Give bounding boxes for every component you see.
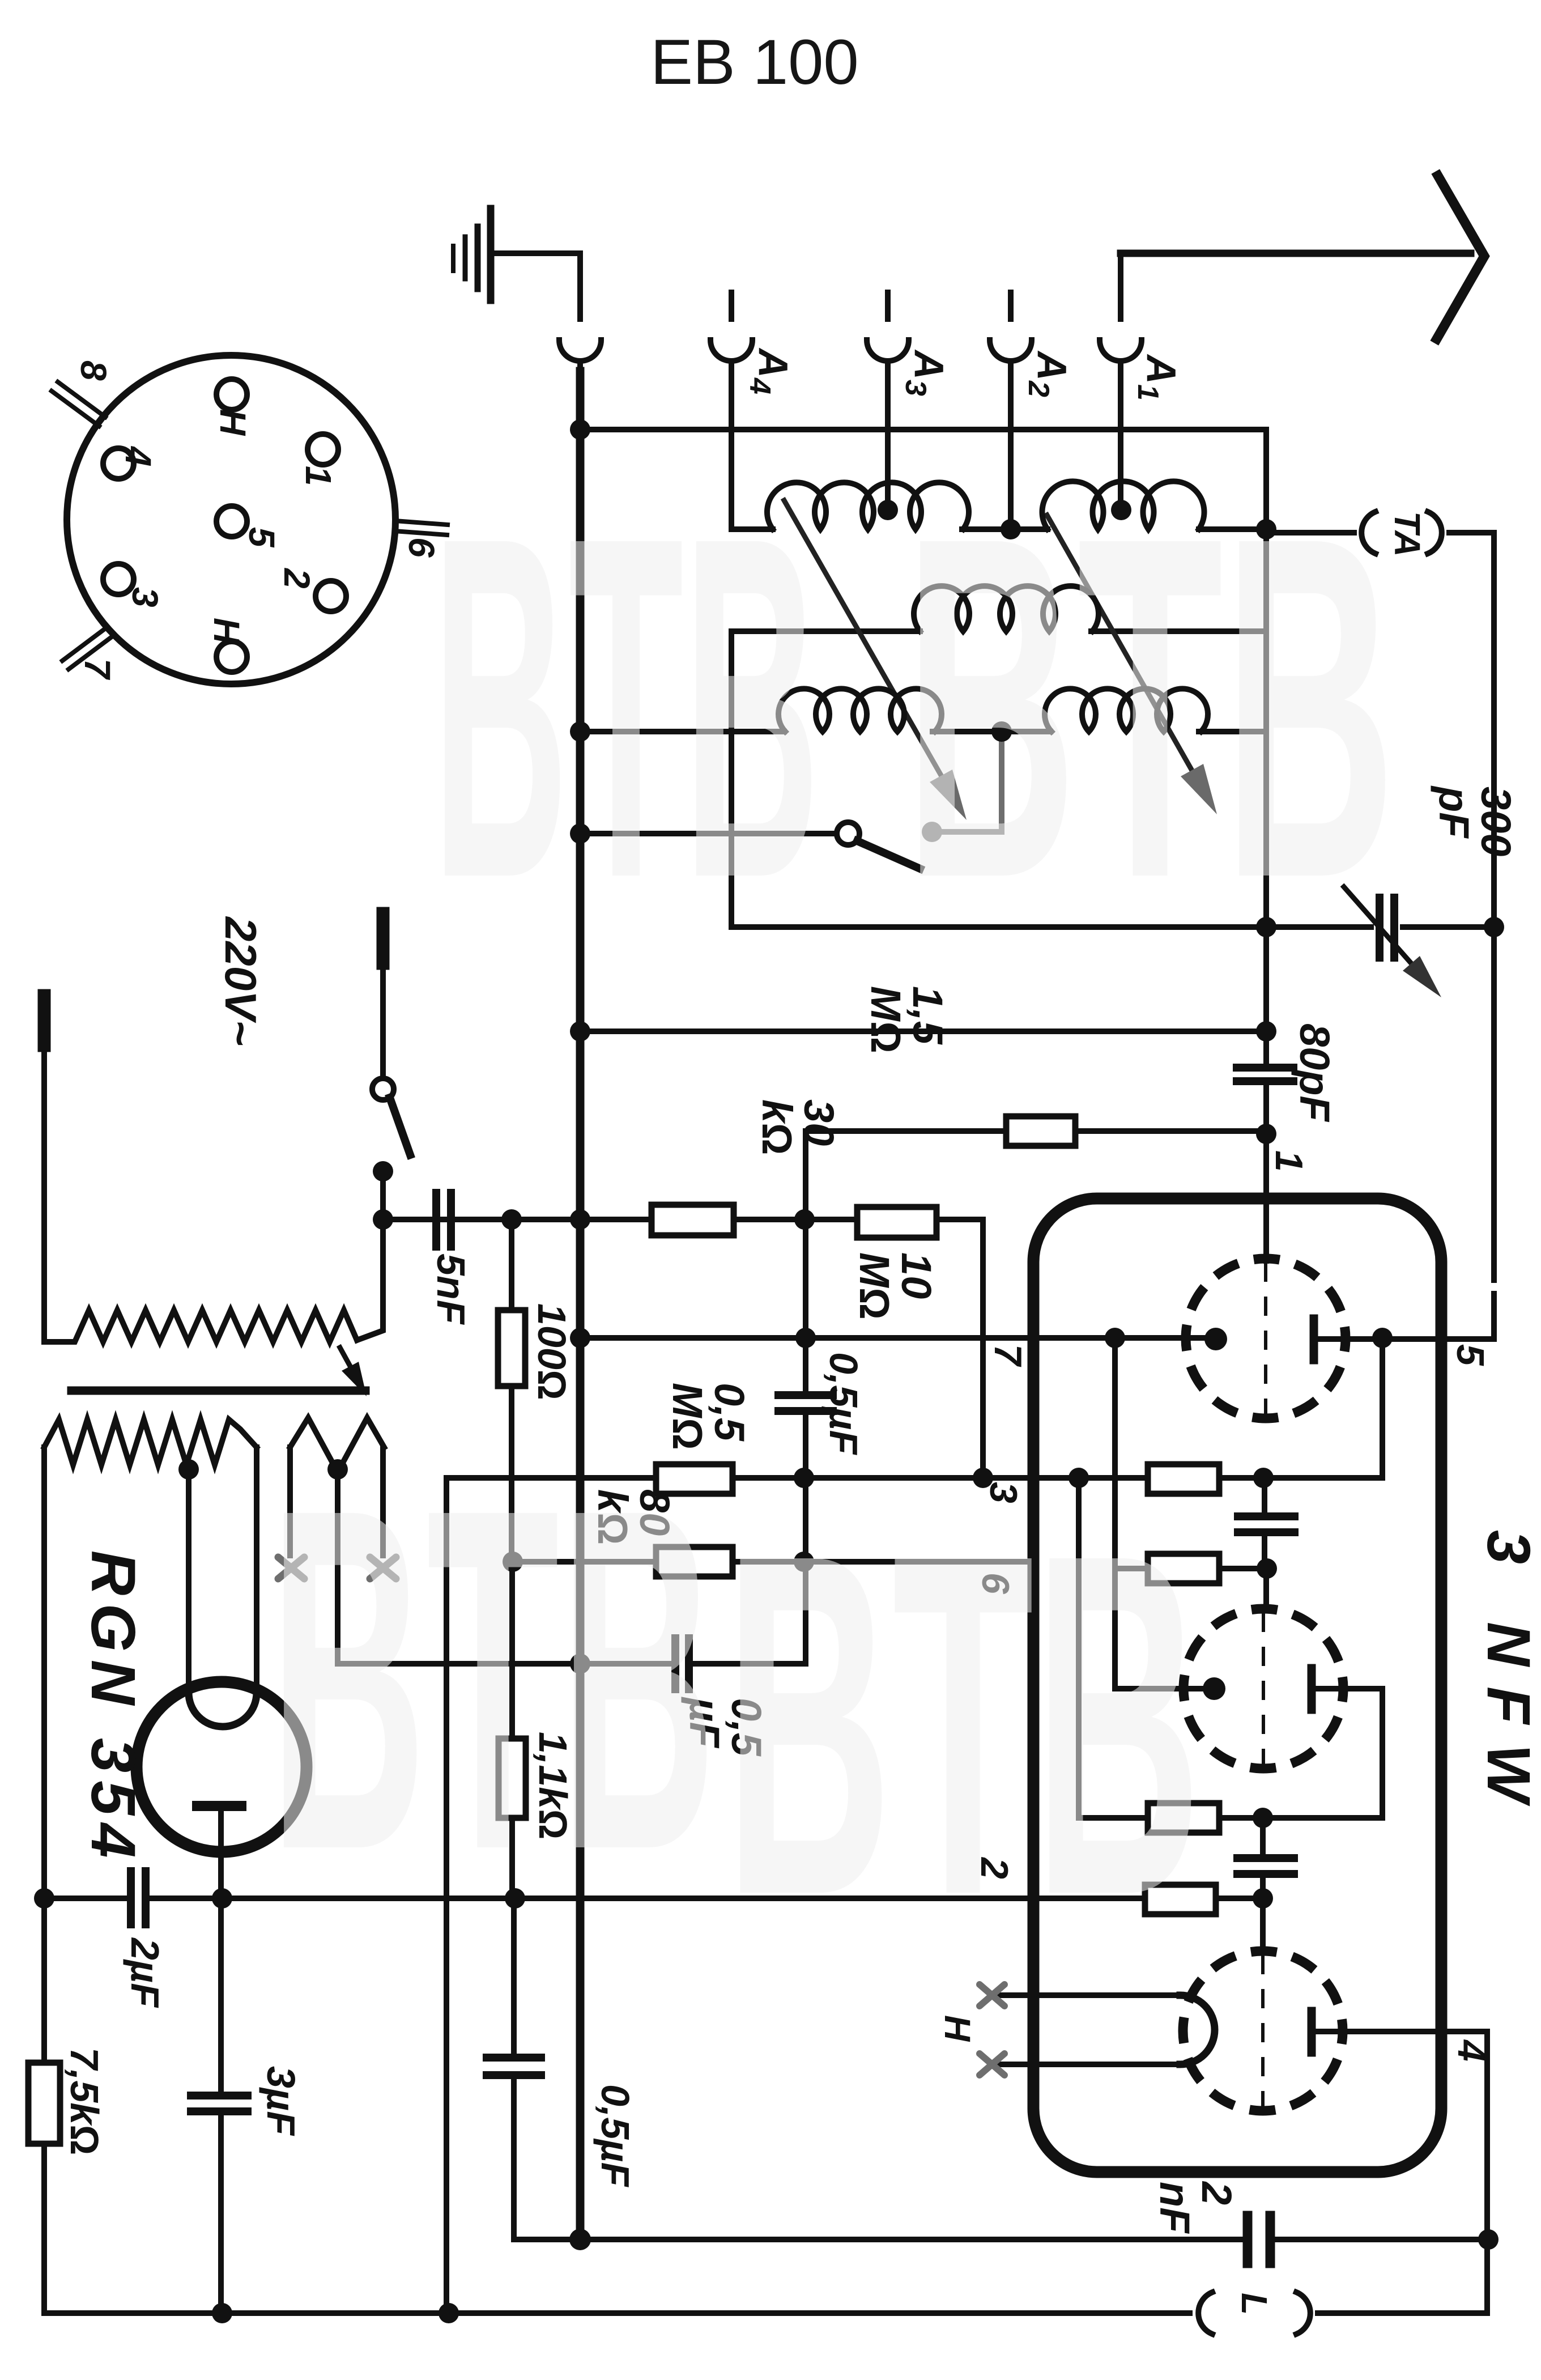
svg-text:0,5µF: 0,5µF — [593, 2084, 637, 2188]
svg-text:2: 2 — [276, 568, 317, 589]
svg-text:RGN 354: RGN 354 — [78, 1550, 148, 1866]
svg-text:BTB: BTB — [269, 1408, 716, 1950]
svg-text:3 NFW: 3 NFW — [1475, 1530, 1541, 1822]
svg-text:H: H — [212, 409, 253, 436]
svg-text:100Ω: 100Ω — [530, 1303, 574, 1400]
svg-text:0,5µF: 0,5µF — [821, 1352, 866, 1456]
svg-text:3: 3 — [125, 587, 165, 607]
svg-text:1: 1 — [298, 466, 339, 486]
svg-text:5nF: 5nF — [429, 1253, 473, 1325]
svg-text:7,5kΩ: 7,5kΩ — [62, 2047, 107, 2155]
svg-text:BTB: BTB — [725, 1453, 1202, 1996]
svg-text:1,5MΩ: 1,5MΩ — [862, 986, 951, 1053]
svg-text:BTB: BTB — [432, 435, 820, 978]
svg-text:H: H — [937, 2015, 978, 2042]
svg-text:7: 7 — [77, 658, 118, 681]
svg-text:EB 100: EB 100 — [650, 27, 858, 97]
svg-text:220V~: 220V~ — [216, 916, 266, 1046]
svg-text:4: 4 — [118, 445, 159, 467]
svg-text:1: 1 — [1267, 1150, 1310, 1172]
svg-text:5: 5 — [1449, 1344, 1492, 1366]
svg-text:7: 7 — [986, 1344, 1029, 1367]
svg-text:5: 5 — [241, 527, 282, 548]
svg-text:3µF: 3µF — [259, 2066, 303, 2136]
svg-text:L: L — [1234, 2293, 1275, 2315]
svg-text:8: 8 — [73, 360, 114, 381]
svg-text:4: 4 — [1450, 2039, 1493, 2062]
svg-text:80pF: 80pF — [1291, 1023, 1338, 1123]
svg-text:BTB: BTB — [904, 436, 1396, 979]
svg-text:H: H — [206, 618, 247, 645]
svg-text:2µF: 2µF — [123, 1937, 167, 2008]
